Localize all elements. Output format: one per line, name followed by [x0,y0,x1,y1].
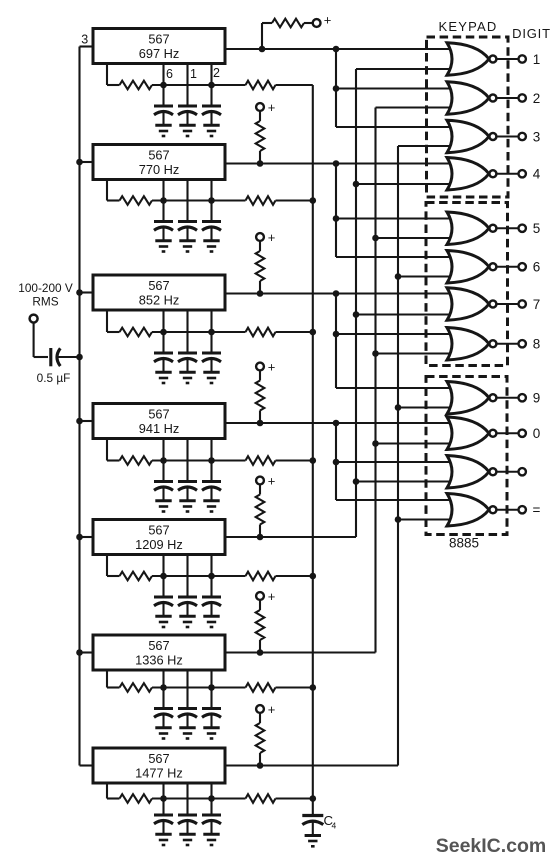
svg-text:567: 567 [148,751,169,766]
svg-text:=: = [533,503,541,518]
svg-text:+: + [268,359,276,374]
svg-text:0: 0 [533,426,541,441]
svg-text:567: 567 [148,148,169,163]
svg-text:DIGIT: DIGIT [512,26,551,41]
svg-text:8885: 8885 [449,536,479,551]
svg-text:+: + [268,230,276,245]
svg-text:0.5 µF: 0.5 µF [37,371,71,385]
svg-text:3: 3 [533,129,541,144]
svg-text:5: 5 [533,221,541,236]
svg-text:1477 Hz: 1477 Hz [135,766,183,781]
svg-text:8: 8 [533,337,541,352]
svg-text:1336 Hz: 1336 Hz [135,653,183,668]
svg-text:6: 6 [166,67,173,81]
svg-text:2: 2 [533,91,541,106]
svg-text:697 Hz: 697 Hz [139,46,180,61]
svg-text:3: 3 [81,33,88,47]
svg-text:KEYPAD: KEYPAD [439,19,498,34]
svg-text:567: 567 [148,407,169,422]
svg-text:9: 9 [533,391,541,406]
svg-text:941 Hz: 941 Hz [139,421,180,436]
svg-text:567: 567 [148,278,169,293]
svg-text:+: + [268,100,276,115]
svg-text:770 Hz: 770 Hz [139,162,180,177]
svg-text:567: 567 [148,32,169,47]
svg-text:1: 1 [533,52,541,67]
svg-text:+: + [268,473,276,488]
svg-text:7: 7 [533,297,541,312]
svg-text:567: 567 [148,638,169,653]
svg-text:1: 1 [190,67,197,81]
svg-text:4: 4 [332,821,337,831]
svg-text:2: 2 [213,66,220,80]
svg-text:4: 4 [533,167,541,182]
svg-text:567: 567 [148,523,169,538]
svg-text:100-200 V: 100-200 V [18,281,73,295]
svg-text:RMS: RMS [32,295,58,309]
svg-text:1209 Hz: 1209 Hz [135,537,183,552]
svg-text:+: + [268,589,276,604]
svg-text:+: + [268,702,276,717]
svg-text:6: 6 [533,260,541,275]
svg-text:+: + [324,13,332,28]
svg-text:852 Hz: 852 Hz [139,293,180,308]
svg-text:SeekIC.com: SeekIC.com [436,835,547,857]
